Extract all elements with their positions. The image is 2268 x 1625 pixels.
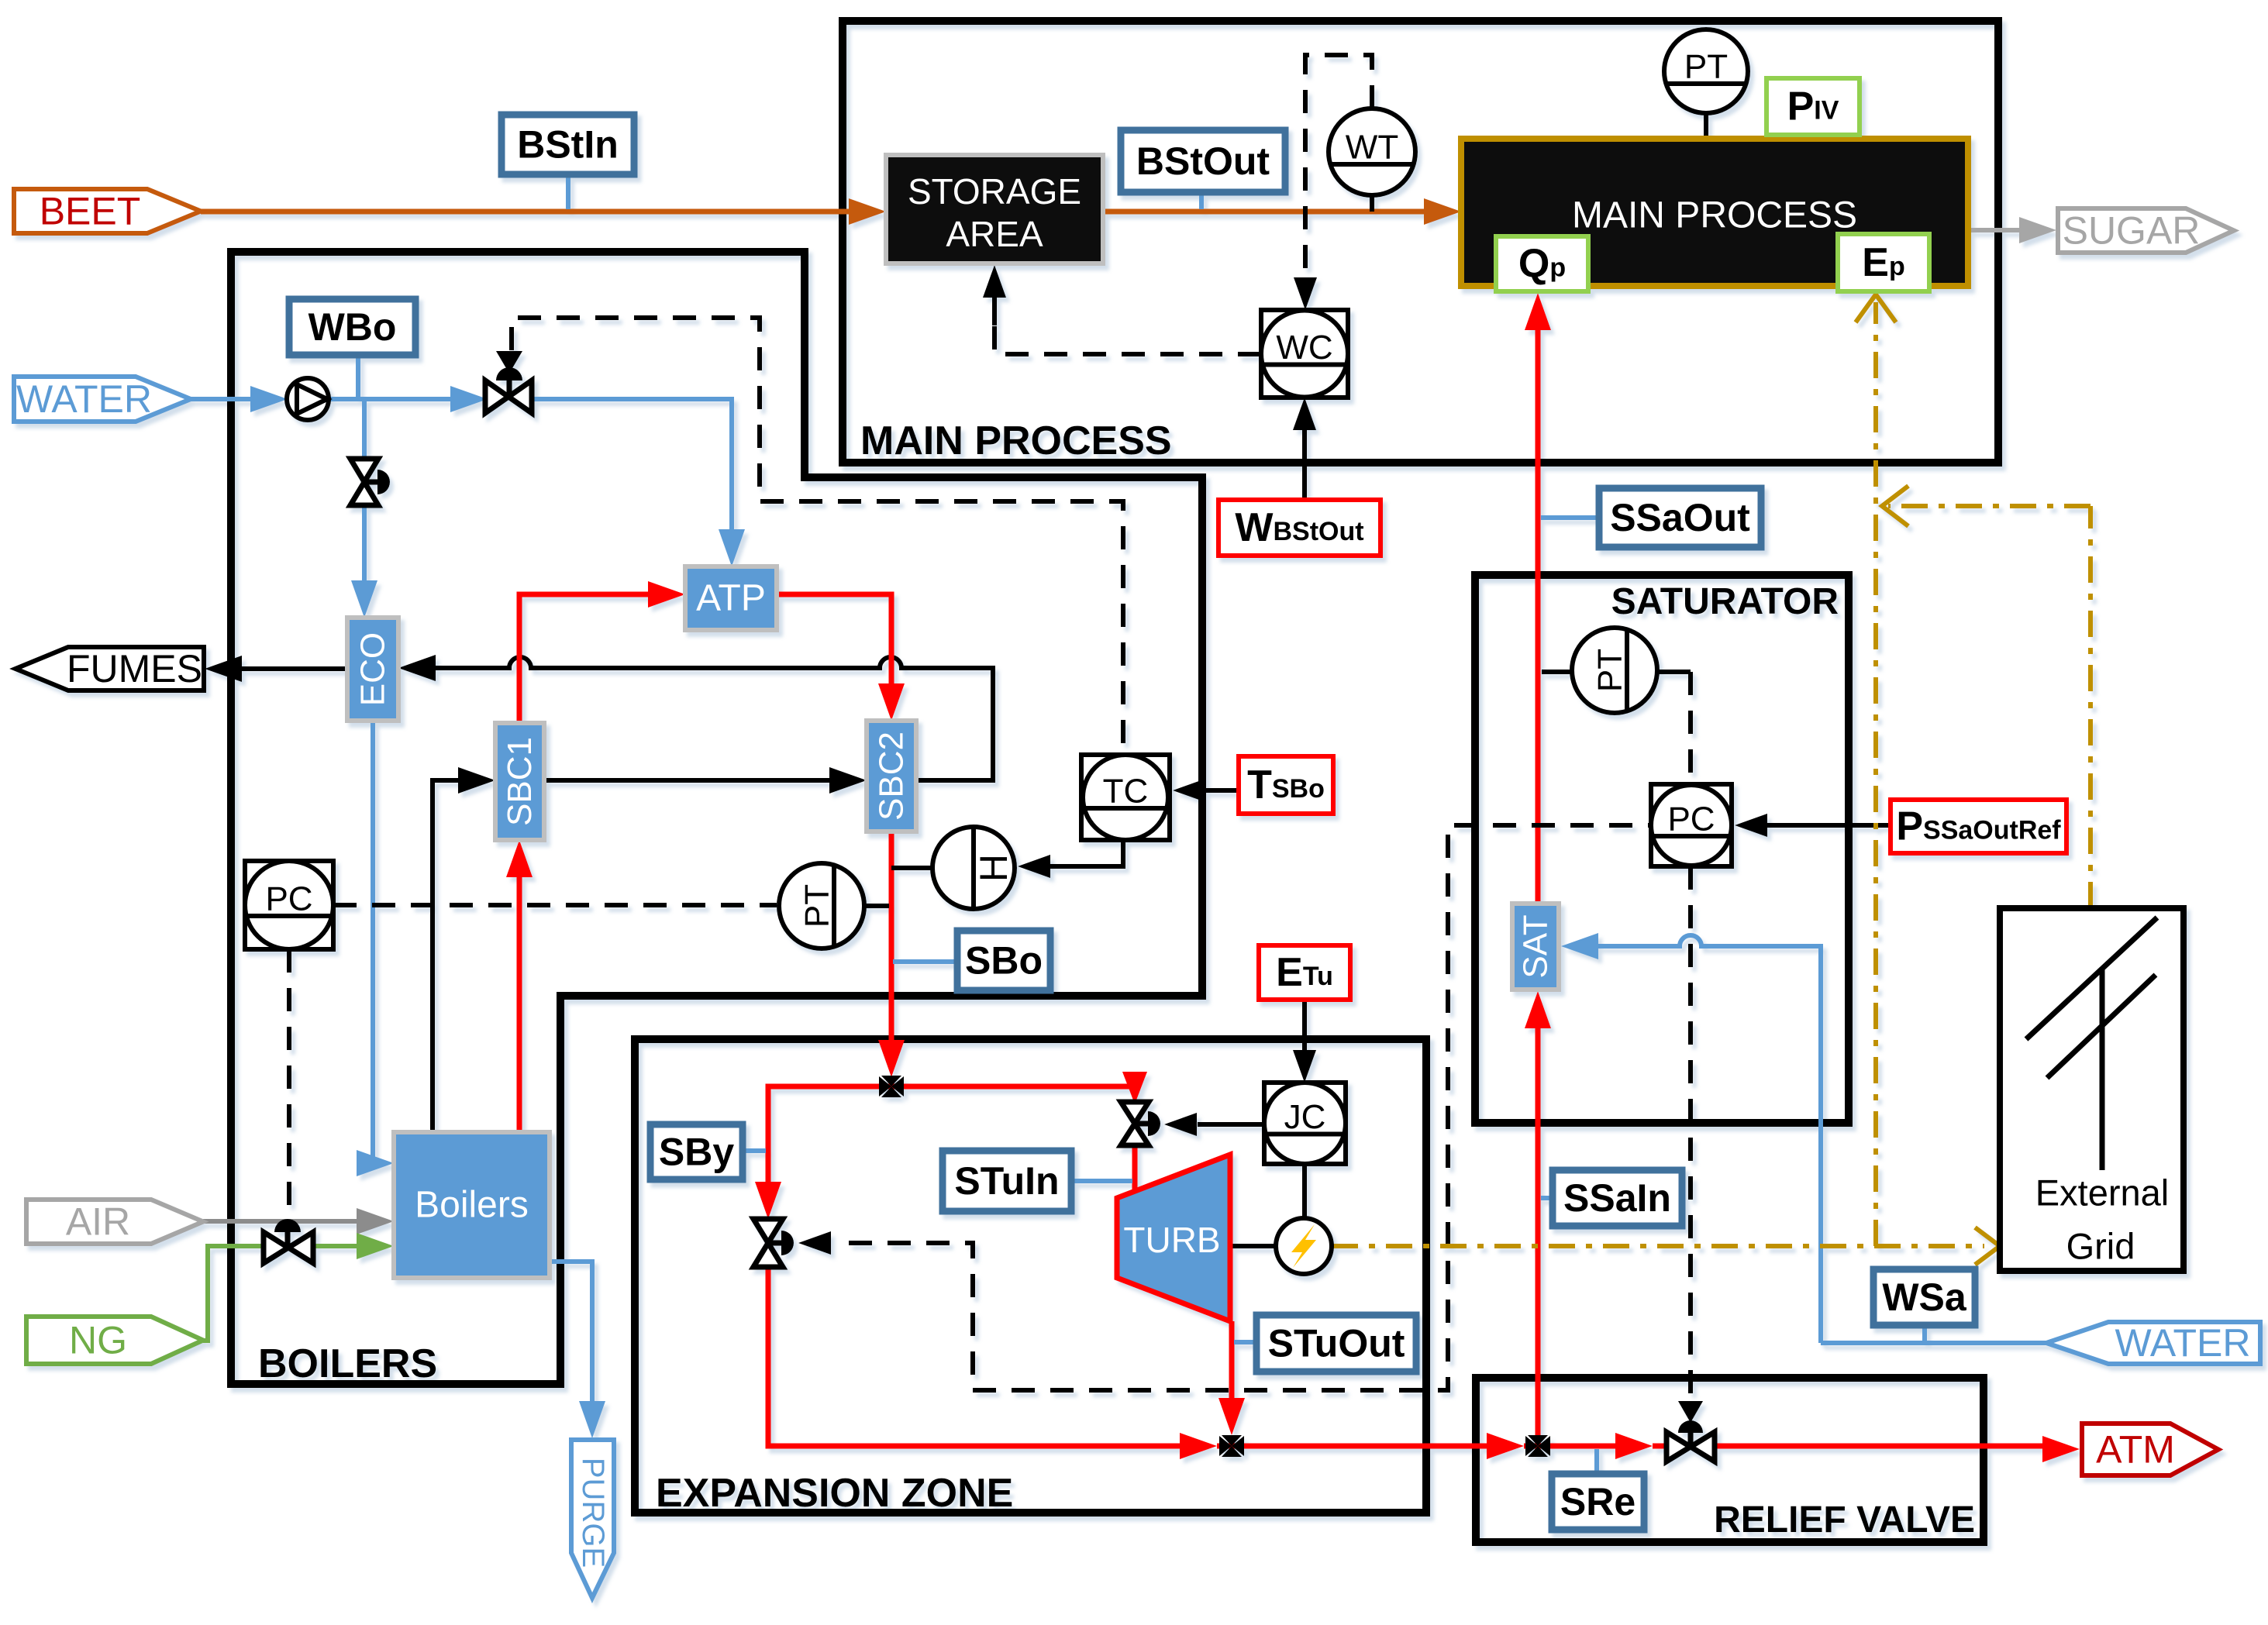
arrowhead into WC top: [1294, 277, 1317, 310]
wire tick STuOut: [1234, 1340, 1256, 1344]
svg-text:External: External: [2035, 1172, 2169, 1214]
wire Boilers to SBC1 flue gas: [433, 780, 465, 1132]
wire steam header right to turbine valve: [891, 1086, 1135, 1091]
wire WATER to pump: [191, 397, 275, 401]
svg-text:BStOut: BStOut: [1136, 139, 1270, 183]
arrowhead into WBo valve: [450, 386, 488, 412]
wire PT-boiler to steam line: [864, 904, 889, 908]
arrowhead into STORAGE AREA: [983, 265, 1006, 298]
label SBo: [957, 931, 1050, 990]
wire relief valve to ATM: [1714, 1444, 2046, 1449]
frame EXPANSION ZONE: [635, 1039, 1426, 1513]
svg-text:SBy: SBy: [659, 1131, 734, 1174]
arrowhead turbine outlet: [1218, 1398, 1245, 1435]
svg-text:MAIN PROCESS: MAIN PROCESS: [860, 418, 1172, 463]
label SBy: [650, 1124, 743, 1179]
wire relief junction to relief valve: [1538, 1444, 1620, 1449]
block ECO economizer: [347, 618, 398, 721]
wire SBC1 to ATP steam: [519, 594, 651, 723]
arrowhead into bypass valve: [755, 1182, 781, 1219]
arrowhead into ATP: [648, 581, 685, 608]
arrowhead AIR into Boilers: [357, 1208, 394, 1234]
wire dashed WT to WC: [1305, 55, 1372, 298]
wire ECO to FUMES: [233, 666, 347, 671]
wire tick SBy: [743, 1148, 766, 1153]
block STORAGE AREA: [886, 155, 1103, 263]
arrowhead into STORAGE AREA: [849, 198, 886, 225]
wire tick BStIn: [566, 174, 570, 209]
block SBC1 superheater 1: [495, 723, 544, 840]
arrowhead into Qp: [1525, 293, 1551, 330]
frame RELIEF VALVE: [1476, 1378, 1984, 1542]
instrument PT saturator: [1572, 628, 1657, 713]
tag FUMES outlet: [16, 647, 204, 690]
arrowhead electric at junction: [1882, 486, 1908, 526]
label Q_p: [1496, 236, 1588, 291]
arrowhead into SBC2: [829, 767, 867, 794]
actuator turbine inlet valve: [1135, 1121, 1148, 1127]
wire PT stub: [1704, 113, 1708, 139]
svg-text:TC: TC: [1103, 773, 1149, 811]
svg-text:PC: PC: [265, 880, 312, 918]
wire arrow into STORAGE AREA bottom: [992, 273, 997, 325]
svg-text:Boilers: Boilers: [415, 1185, 529, 1226]
wire tick WSa: [1922, 1325, 1927, 1343]
instrument WT weight transmitter: [1329, 108, 1415, 195]
label P_SSaOutRef: [1891, 800, 2066, 853]
generator G: [1276, 1218, 1332, 1274]
wire NG to Boilers: [203, 1246, 368, 1341]
svg-text:WBo: WBo: [308, 305, 397, 349]
label E_Tu: [1259, 945, 1350, 1000]
svg-text:SAT: SAT: [1517, 914, 1555, 978]
wire WT stub: [1370, 195, 1374, 212]
arrowhead NG into Boilers: [357, 1233, 394, 1259]
label SSaIn: [1553, 1170, 1682, 1226]
tag WATER inlet right: [2046, 1321, 2260, 1365]
actuator bypass valve: [768, 1241, 781, 1246]
pump feedwater: [287, 378, 329, 420]
svg-text:PT: PT: [798, 884, 836, 928]
arrowhead electric into Ep: [1856, 294, 1896, 322]
svg-text:H: H: [972, 854, 1015, 882]
valve NG control: [264, 1232, 313, 1263]
arrowhead into SAT right: [1561, 933, 1598, 959]
svg-text:EXPANSION ZONE: EXPANSION ZONE: [656, 1471, 1013, 1516]
block ATP attemperator: [685, 566, 777, 630]
arrowhead into pump: [250, 386, 288, 412]
tag ATM outlet: [2082, 1424, 2218, 1475]
label SRe: [1552, 1474, 1644, 1530]
tag NG inlet: [26, 1317, 203, 1364]
arrowhead into SAT bottom: [1525, 991, 1551, 1028]
instrument PC saturator pressure controller: [1651, 784, 1732, 866]
svg-text:MAIN PROCESS: MAIN PROCESS: [1572, 195, 1857, 236]
svg-text:SRe: SRe: [1560, 1480, 1636, 1523]
wire PT-sat to dashed line: [1657, 670, 1691, 674]
wire steam header left to bypass: [768, 1086, 891, 1189]
wire ATP to SBC2 steam: [777, 594, 891, 691]
svg-text:AIR: AIR: [66, 1200, 130, 1244]
label P_IV: [1766, 78, 1860, 135]
svg-text:SBo: SBo: [965, 939, 1043, 983]
arrowhead into WC bottom: [1293, 398, 1316, 430]
instrument PT boiler: [779, 863, 864, 948]
valve bypass PRV: [753, 1219, 783, 1267]
wire TURB shaft to generator: [1230, 1244, 1276, 1248]
label W_BStOut: [1218, 500, 1380, 556]
arrowhead into SUGAR tag: [2019, 217, 2056, 243]
arrowhead into Boilers: [357, 1150, 394, 1176]
wire dashed PC-boiler to NG valve actuator: [287, 949, 291, 1218]
arrowhead into bypass valve actuator: [798, 1231, 831, 1255]
label WSa: [1873, 1269, 1975, 1325]
svg-text:SBC1: SBC1: [501, 737, 539, 826]
svg-text:STuIn: STuIn: [954, 1159, 1059, 1203]
wire dashed PC-boiler to PT-boiler: [333, 903, 777, 907]
node relief junction: [1525, 1435, 1550, 1457]
instrument JC turbine controller: [1264, 1083, 1346, 1164]
arrowhead into MAIN PROCESS: [1424, 198, 1461, 225]
actuator ECO branch valve: [364, 480, 377, 485]
label WBo: [289, 299, 415, 355]
wire tick STuIn: [1071, 1179, 1132, 1183]
svg-text:SSaOut: SSaOut: [1610, 496, 1750, 539]
wire dashed TC to WBo valve actuator: [512, 318, 1123, 753]
wire beet STORAGE AREA to MAIN PROCESS: [1103, 209, 1430, 215]
svg-text:FUMES: FUMES: [67, 647, 202, 690]
svg-text:Grid: Grid: [2066, 1226, 2135, 1267]
arrowhead into FUMES tag: [205, 656, 242, 682]
arrowhead into ATP top: [719, 529, 745, 566]
svg-text:PC: PC: [1667, 800, 1715, 838]
instrument WC weight controller: [1261, 310, 1348, 398]
wire WBo valve to ATP: [532, 399, 732, 542]
arrowhead into ECO right: [398, 655, 436, 681]
label BStOut: [1121, 130, 1285, 192]
block SAT saturator: [1512, 904, 1559, 990]
label STuOut: [1256, 1315, 1416, 1372]
svg-text:AREA: AREA: [946, 214, 1043, 254]
tag WATER inlet left: [14, 377, 191, 422]
wire SBC1 to SBC2 flue gas: [544, 778, 833, 783]
actuator NG valve: [274, 1219, 301, 1232]
wire pump to 3-way valve: [329, 397, 456, 401]
wire tick BStOut: [1199, 192, 1204, 209]
wire dashed WC to STORAGE AREA: [994, 325, 1261, 354]
wire dashed saturator PC to bypass valve actuator: [849, 825, 1649, 1390]
frame BOILERS: [231, 252, 1202, 1384]
wire MAIN PROCESS to SUGAR: [1968, 228, 2023, 232]
svg-text:PURGE: PURGE: [576, 1458, 610, 1568]
wire to relief junction: [1232, 1444, 1492, 1449]
arrowhead into relief valve: [1615, 1433, 1653, 1459]
svg-text:NG: NG: [69, 1319, 127, 1362]
tag SUGAR outlet: [2058, 208, 2234, 253]
label STuIn: [943, 1151, 1071, 1211]
wire ECO to Boilers feedwater: [368, 721, 373, 1163]
svg-text:WATER: WATER: [16, 377, 152, 421]
wire bypass valve down and to outlet junction: [768, 1268, 1184, 1446]
wire TC to H: [1050, 840, 1123, 866]
tag PURGE outlet: [571, 1440, 614, 1598]
wire E_Tu to JC: [1302, 1000, 1307, 1054]
wire tick SBo: [893, 959, 957, 964]
wire PT-sat left connector to steam riser: [1542, 670, 1572, 674]
wire WBo label tick: [356, 355, 360, 399]
arrowhead into TC: [1173, 779, 1205, 802]
actuator feedwater valve: [496, 351, 522, 374]
arrowhead before relief junction: [1487, 1433, 1524, 1459]
svg-text:WT: WT: [1346, 129, 1398, 167]
wire SBC2 to ECO flue gas: [434, 657, 993, 780]
wire water to SAT (from WATER/WSa): [1589, 935, 1821, 1343]
svg-text:WC: WC: [1276, 329, 1332, 367]
arrowhead into turbine inlet valve: [1122, 1072, 1147, 1104]
block SBC2 superheater 2: [867, 721, 916, 831]
wire TURB outlet down: [1229, 1321, 1235, 1406]
wire Boilers blowdown to PURGE: [550, 1262, 592, 1409]
valve ECO branch: [350, 459, 378, 505]
arrowhead into H: [1018, 855, 1050, 878]
svg-text:WATER: WATER: [2115, 1321, 2251, 1365]
valve relief control: [1667, 1432, 1715, 1461]
label SSaOut: [1599, 488, 1761, 547]
wire electric from External Grid top: [2088, 506, 2093, 908]
arrowhead into ECO top: [351, 580, 377, 618]
svg-text:SBC2: SBC2: [873, 732, 911, 821]
node steam header junction: [879, 1076, 904, 1097]
svg-text:PT: PT: [1684, 48, 1728, 86]
svg-text:SATURATOR: SATURATOR: [1611, 581, 1839, 622]
instrument TC temperature controller: [1081, 755, 1170, 840]
svg-text:ATP: ATP: [696, 578, 766, 619]
svg-text:WSa: WSa: [1882, 1276, 1967, 1319]
wire electric riser to Ep: [1873, 302, 1878, 1246]
arrowhead into SBC1 bottom: [506, 840, 533, 877]
wire H to steam line: [891, 866, 932, 870]
wire branch to ECO: [362, 399, 367, 462]
svg-text:BStIn: BStIn: [517, 123, 619, 167]
label E_p: [1838, 234, 1929, 291]
block MAIN PROCESS: [1461, 139, 1968, 286]
arrowhead into PC-sat: [1735, 814, 1767, 837]
wire P_SSaOutRef to PC-sat: [1766, 823, 1891, 828]
wire SBC2 to steam header: [889, 831, 894, 1052]
arrowhead into SBC2 top: [878, 683, 905, 721]
arrowhead into PURGE tag: [579, 1401, 605, 1438]
node turbine outlet junction: [1219, 1435, 1244, 1457]
tag BEET inlet: [14, 189, 201, 233]
instrument PT main process: [1664, 29, 1748, 113]
wire saturated steam riser SAT to Qp: [1536, 1021, 1541, 1446]
svg-text:BEET: BEET: [40, 190, 141, 233]
valve feedwater control (WBo): [485, 380, 532, 413]
svg-text:JC: JC: [1284, 1098, 1326, 1136]
svg-text:ATM: ATM: [2096, 1428, 2175, 1472]
wire AIR to Boilers: [203, 1219, 368, 1224]
svg-text:SUGAR: SUGAR: [2063, 209, 2201, 253]
wire tick SSaOut: [1541, 515, 1599, 520]
wire W_BStOut to WC bottom: [1302, 405, 1307, 500]
svg-text:RELIEF VALVE: RELIEF VALVE: [1714, 1499, 1975, 1541]
wire tick SSaIn: [1541, 1196, 1553, 1200]
wire dashed PT-sat down to PC-sat and relief valve actuator: [1688, 672, 1693, 783]
arrowhead to header junction: [878, 1040, 905, 1077]
wire turbine inlet valve to TURB: [1132, 1145, 1138, 1197]
wire Boilers to SBC1 steam: [517, 869, 522, 1132]
block Boilers: [394, 1132, 550, 1278]
arrowhead into inlet valve actuator: [1164, 1113, 1197, 1136]
arrowhead electric into External Grid: [1975, 1227, 2000, 1265]
svg-text:SSaIn: SSaIn: [1563, 1176, 1671, 1220]
svg-text:STORAGE: STORAGE: [908, 171, 1081, 212]
block TURB turbine: [1117, 1155, 1230, 1321]
svg-text:BOILERS: BOILERS: [258, 1341, 437, 1386]
block External Grid: [2000, 908, 2184, 1271]
frame MAIN PROCESS: [843, 21, 1998, 463]
wire T_SBo to TC: [1204, 788, 1239, 793]
label T_SBo: [1239, 756, 1333, 814]
label BStIn: [502, 115, 634, 174]
wire JC to generator: [1302, 1164, 1307, 1218]
instrument PC boiler pressure controller: [245, 861, 333, 949]
svg-text:PT: PT: [1591, 649, 1629, 692]
wire tick SRe: [1594, 1449, 1599, 1474]
wire beet feed BEET to STORAGE AREA: [201, 209, 853, 215]
actuator relief valve: [1678, 1401, 1703, 1423]
arrowhead into ATM tag: [2042, 1436, 2080, 1462]
svg-text:ECO: ECO: [354, 632, 392, 706]
wire WATER right tag to riser: [1821, 1341, 2046, 1345]
arrowhead into SBC1: [458, 767, 495, 794]
arrowhead into JC top: [1293, 1050, 1316, 1083]
instrument H hand controller: [932, 827, 1015, 909]
svg-text:TURB: TURB: [1123, 1220, 1220, 1260]
wire generator to External Grid (electric): [1332, 1244, 1984, 1248]
wire JC to turbine inlet valve actuator: [1198, 1122, 1264, 1127]
tag AIR inlet: [26, 1200, 203, 1244]
valve turbine inlet: [1121, 1102, 1149, 1145]
frame SATURATOR: [1475, 575, 1849, 1123]
svg-text:STuOut: STuOut: [1268, 1322, 1405, 1365]
arrowhead before turbine-out junction: [1180, 1433, 1217, 1459]
